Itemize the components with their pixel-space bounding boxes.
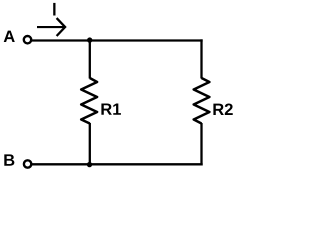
terminal A [24, 36, 31, 43]
resistor R2 [194, 78, 210, 124]
wire: R2 bottom lead (down to corner) [200, 123, 202, 165]
junction dot bottom (node B / R1) [87, 162, 92, 167]
wire: bottom rail B to bottom-right corner [32, 163, 203, 165]
wire: top rail A to top-right corner [32, 39, 203, 41]
wire: R1 bottom lead [89, 123, 91, 164]
resistor R1 [81, 78, 97, 124]
junction dot top (node A / R1) [87, 37, 92, 42]
node label B [4, 154, 14, 165]
wire: R2 top lead (corner down) [200, 39, 202, 78]
current arrow I [37, 26, 64, 28]
value label R1 [101, 103, 121, 114]
current label I [53, 3, 55, 16]
terminal B [24, 160, 31, 167]
value label R2 [213, 103, 232, 115]
wire: R1 top lead [89, 41, 91, 79]
node label A [4, 31, 15, 42]
